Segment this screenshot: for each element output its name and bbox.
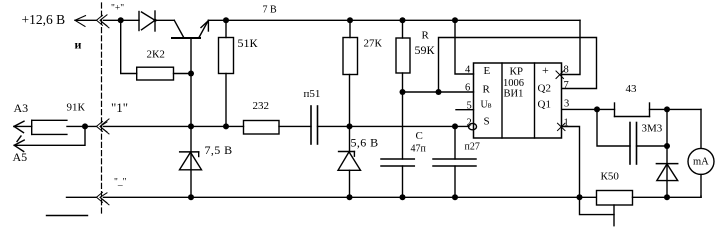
pin1 wire — [562, 127, 580, 198]
node ground / diode — [664, 194, 670, 200]
K50 tap wiring — [580, 197, 615, 214]
arrow A3 — [14, 121, 32, 132]
node rail 27K — [347, 17, 353, 23]
svg-text:Q1: Q1 — [538, 99, 551, 111]
diode VD right — [666, 109, 668, 197]
trigger row wire — [104, 125, 244, 127]
x mark pin8 — [556, 71, 564, 79]
connector chevron "-" — [97, 192, 110, 205]
wire 2K2 to transistor line — [174, 73, 192, 75]
svg-text:"_": "_" — [114, 178, 127, 188]
svg-text:п51: п51 — [304, 88, 321, 100]
resistor 232 — [244, 121, 280, 135]
svg-text:51К: 51К — [238, 36, 259, 50]
resistor 2K2 — [137, 67, 174, 80]
arrow +12.6 input — [75, 16, 97, 27]
node transistor line / trigger — [188, 123, 194, 129]
svg-text:4: 4 — [465, 65, 471, 76]
wire diode to transistor — [155, 19, 174, 21]
node rail pin4 — [452, 17, 458, 23]
diode VD1 top — [139, 11, 157, 31]
wire top rail 7V — [208, 19, 580, 21]
node 51K / trigger — [223, 123, 229, 129]
svg-text:R: R — [422, 30, 430, 42]
resistor R 59K — [402, 20, 404, 38]
meter mA — [700, 109, 702, 148]
wire top rail left of diode — [104, 19, 140, 21]
zener 5.6V — [338, 152, 361, 171]
svg-text:К50: К50 — [601, 171, 620, 183]
arrow A5 — [14, 136, 24, 152]
IC U1 box KR1006VI1 — [474, 63, 562, 138]
svg-text:3: 3 — [564, 99, 569, 110]
wire zener 5.6 to ground — [349, 170, 351, 197]
connector chevron "1" — [97, 119, 110, 134]
resistor 91K (open right) — [32, 120, 67, 134]
svg-text:47п: 47п — [411, 144, 427, 155]
potentiometer K50 — [597, 191, 633, 206]
node ground / C 47n — [400, 194, 406, 200]
node pin7 loop / pin6 — [436, 89, 442, 95]
svg-text:А3: А3 — [14, 101, 29, 115]
svg-text:А5: А5 — [13, 150, 28, 164]
node 2K2/transistor — [188, 71, 194, 77]
svg-text:43: 43 — [626, 83, 638, 95]
svg-text:КР: КР — [510, 66, 523, 78]
wire 27K down to zener — [349, 75, 351, 152]
node 91K — [82, 123, 88, 129]
svg-text:5: 5 — [467, 101, 472, 112]
svg-text:1006: 1006 — [503, 78, 524, 89]
wire 3M3 right plate — [637, 145, 668, 147]
wire n51 to pin 2 — [318, 125, 470, 127]
node ground / zener 5.6 — [347, 194, 353, 200]
node ground / zener 7.5 — [188, 194, 194, 200]
svg-text:Е: Е — [484, 65, 491, 77]
svg-text:232: 232 — [253, 100, 270, 112]
wire n27 to ground — [454, 166, 456, 197]
ground rail — [67, 196, 97, 198]
svg-text:R: R — [483, 84, 491, 96]
node diode branch — [664, 106, 670, 112]
svg-text:Q2: Q2 — [538, 83, 551, 95]
wire 59K down to C 47n — [402, 73, 404, 159]
transistor VT1 — [172, 20, 208, 197]
node 27K / trigger — [347, 123, 353, 129]
wire C 47n to ground — [402, 166, 404, 197]
svg-text:Uв: Uв — [481, 100, 492, 111]
capacitor C 47n — [381, 159, 414, 166]
svg-text:5,6 В: 5,6 В — [351, 136, 379, 150]
resistor 51K — [225, 20, 227, 37]
svg-text:27К: 27К — [364, 38, 383, 50]
zener 7.5V — [180, 152, 202, 170]
node rail 51K — [223, 17, 229, 23]
svg-text:7: 7 — [564, 80, 569, 91]
wire 232 to n51 — [279, 125, 311, 127]
pin3 wire — [562, 108, 615, 110]
wire to A5 — [14, 126, 85, 145]
svg-text:59К: 59К — [415, 43, 436, 57]
capacitor n27 — [454, 126, 456, 159]
svg-text:3М3: 3М3 — [642, 123, 663, 135]
wire 43 to meter — [650, 108, 702, 110]
node ground / pin1 — [577, 194, 583, 200]
resistor 27K — [349, 20, 351, 37]
wire 51K to trigger row — [225, 74, 227, 127]
bottom-left stub line — [47, 215, 88, 217]
svg-text:ВИ1: ВИ1 — [504, 89, 524, 100]
svg-text:7,5 В: 7,5 В — [205, 143, 233, 157]
svg-text:С: С — [416, 130, 423, 142]
node n27 / trigger — [452, 123, 458, 129]
svg-text:mА: mА — [693, 157, 709, 168]
pin7 loop — [439, 38, 597, 93]
svg-text:2: 2 — [467, 118, 472, 129]
node 59K / pin6 — [400, 89, 406, 95]
svg-text:6: 6 — [465, 83, 470, 94]
svg-text:+12,6 В: +12,6 В — [22, 12, 66, 27]
pin5 stub — [456, 109, 474, 111]
x mark pin1 — [558, 123, 566, 130]
svg-text:2К2: 2К2 — [147, 49, 165, 61]
resistor 43 (open top) — [615, 103, 650, 117]
pin2 inversion circle — [469, 123, 477, 129]
connector chevron "+" — [97, 15, 110, 28]
svg-text:"1": "1" — [111, 100, 128, 115]
wire 2K2 branch — [121, 20, 137, 73]
svg-text:+: + — [542, 63, 549, 77]
capacitor 3M3 — [597, 109, 630, 146]
svg-text:"+": "+" — [111, 4, 124, 14]
node on rail x=120.7 — [118, 17, 124, 23]
node ground / n27 — [452, 194, 458, 200]
boundary dash line — [101, 3, 103, 213]
capacitor n51 — [311, 106, 318, 144]
svg-text:91К: 91К — [67, 102, 86, 114]
wire pin 6 row — [403, 91, 474, 93]
node rail 59K — [400, 17, 406, 23]
pin8 wire — [562, 20, 580, 74]
wire 91K to node — [67, 125, 97, 127]
svg-text:7 В: 7 В — [263, 5, 278, 16]
svg-text:S: S — [484, 116, 490, 128]
capacitor n27 plates — [433, 159, 476, 166]
wire ground rail — [104, 196, 597, 198]
wire pin4 — [455, 20, 474, 74]
svg-text:и: и — [75, 38, 82, 52]
node 3M3 / diode line — [664, 143, 670, 149]
svg-text:п27: п27 — [465, 142, 480, 153]
